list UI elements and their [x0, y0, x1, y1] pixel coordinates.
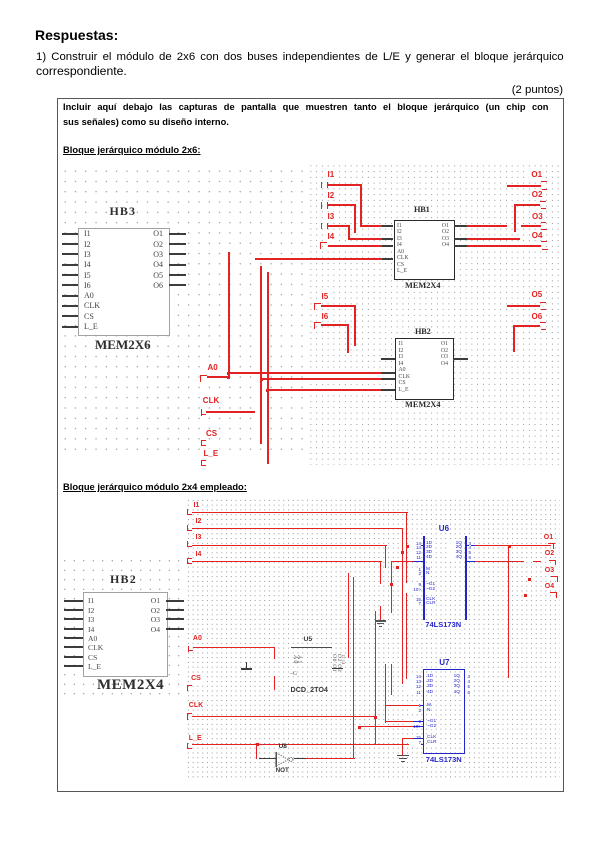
node O5 flag	[540, 302, 546, 303]
HB1 left pin names	[397, 223, 409, 275]
node O4 flag	[550, 592, 557, 593]
HB3 pin O6 stub	[169, 284, 186, 286]
HB2blk left pin names	[88, 596, 103, 671]
node I1 label	[326, 170, 337, 179]
node L_E label	[202, 449, 221, 458]
wire O3 flag lead	[521, 225, 541, 227]
junction O3 stub dot	[528, 578, 531, 581]
node O3 flag	[541, 222, 547, 223]
wire L_E to U7 CLR	[192, 744, 412, 745]
wire CLK	[192, 716, 376, 717]
node O6 flag	[540, 322, 546, 323]
HB1 pin I4 stub	[382, 245, 394, 247]
chip HB2 label MEM2X4	[405, 400, 441, 409]
node O1 flag	[548, 543, 555, 544]
node A0 flag	[188, 646, 189, 652]
wire U6 1Q to O1	[475, 545, 551, 546]
node I1 label	[192, 502, 202, 509]
node CS flag	[201, 440, 206, 441]
HB3 pin O5 stub	[169, 274, 186, 276]
HB2blk pin A0 stub	[64, 637, 83, 639]
chip U6 left bar	[423, 536, 425, 620]
node O6 label	[530, 312, 545, 321]
HB3 pin O1 stub	[169, 233, 186, 235]
wire I1	[192, 512, 407, 513]
chip HB1 label MEM2X4	[405, 281, 441, 290]
gate U8 NOT output stub	[294, 758, 306, 759]
U7 right pin numbers	[468, 674, 471, 695]
HB3 pin I3 stub	[62, 253, 79, 255]
chip U6 name	[425, 620, 461, 629]
wire to U7 M pin	[385, 705, 419, 706]
node O3 label	[530, 212, 545, 221]
points note	[512, 84, 563, 96]
junction G2 start dot	[358, 726, 361, 729]
wire vertical bus 2	[260, 266, 262, 444]
node CLK flag	[187, 713, 192, 714]
HB2blk pin O1 stub	[166, 600, 184, 602]
U7 M blue stub	[420, 705, 424, 706]
HB3 pin I4 stub	[62, 264, 79, 266]
ground G2 under U7	[397, 755, 409, 756]
node I6 flag	[314, 322, 321, 323]
HB3 pin A0 stub	[62, 295, 79, 297]
decoder U5 name	[291, 685, 328, 694]
HB2blk pin O2 stub	[166, 609, 184, 611]
wire I3	[328, 225, 350, 227]
HB2 right pin names	[435, 341, 448, 367]
wire mid vertical a	[348, 573, 349, 658]
HB2blk pin I2 stub	[64, 609, 83, 611]
node I3 flag	[321, 223, 322, 230]
node O2 flag	[540, 201, 546, 202]
HB1 pin I1 stub	[382, 225, 394, 227]
U7 M pin numbers	[411, 703, 421, 713]
section heading 1	[63, 144, 201, 155]
node CLK label	[201, 396, 221, 405]
HB3 pin CLK stub	[62, 305, 79, 307]
wire 4D feed	[391, 561, 414, 562]
HB2 left pin names	[399, 341, 411, 393]
HB1 pin O3 stub	[454, 238, 467, 240]
block HB3 body MEM2X6	[78, 228, 170, 336]
junction CLK tee	[374, 716, 377, 719]
wire I1	[328, 184, 363, 186]
U7 G1 blue stub	[413, 721, 423, 722]
node O4 flag	[541, 241, 547, 242]
chip HB1 body	[394, 220, 455, 280]
ground G1	[375, 620, 386, 622]
decoder U5 outputs rotated	[331, 654, 337, 672]
U6 inside left labels	[426, 542, 432, 561]
wire O1 flag lead	[507, 185, 541, 187]
block HB2 body	[83, 592, 168, 677]
HB1 right pin names	[436, 223, 449, 249]
HB2blk pin O4 stub	[166, 628, 184, 630]
ground tee symbol left of U5	[246, 662, 247, 670]
HB3 pin I6 stub	[62, 284, 79, 286]
decoder U5 enable label	[290, 671, 297, 677]
node CLK flag	[201, 409, 202, 416]
node CS label	[189, 675, 203, 682]
junction hidden node	[396, 566, 399, 569]
HB3 pin O3 stub	[169, 253, 186, 255]
chip HB2 title	[415, 327, 431, 336]
block HB3 label MEM2X6	[95, 337, 151, 353]
section heading 2	[63, 481, 247, 492]
node I4 label	[326, 232, 337, 241]
node L_E label	[187, 735, 204, 742]
wire mid vertical b (to NOT output)	[353, 577, 354, 759]
HB2 pin A0 stub	[381, 372, 395, 374]
HB2 pin O3 stub	[453, 358, 468, 360]
gate U8 NOT triangle	[275, 751, 299, 768]
junction O4 stub dot	[524, 594, 527, 597]
junction 2D hidden	[401, 551, 404, 554]
wire from O4 pin to flag	[467, 245, 541, 247]
HB3 pin CS stub	[62, 315, 79, 317]
wire I5	[321, 305, 356, 307]
HB2 pin CLK stub	[381, 378, 395, 380]
decoder U5 pin A0 rotated	[292, 655, 298, 664]
chip HB2 body	[395, 338, 454, 400]
decoder U5 top bar	[291, 647, 332, 648]
HB1 pin I3 stub	[382, 238, 394, 240]
U6 right pin numbers	[469, 542, 472, 561]
header title	[35, 27, 118, 43]
node O1 label	[529, 170, 544, 179]
node I2 flag	[187, 525, 188, 531]
node I3 label	[194, 534, 204, 541]
node O2 label	[543, 550, 556, 557]
grid dots right screenshot	[308, 163, 560, 465]
wire A0 to HB2	[228, 372, 381, 374]
junction 4D branch	[390, 583, 393, 586]
wire branch to NOT input	[256, 744, 257, 760]
wire CLK to HB1	[255, 258, 382, 260]
wire I4	[328, 245, 382, 247]
node I4 flag	[320, 242, 327, 243]
node CLK label	[187, 702, 205, 709]
HB1 pin CLK stub	[382, 258, 394, 260]
junction CLK branch	[260, 378, 263, 381]
gate U8 title	[279, 743, 287, 750]
node O2 label	[530, 190, 545, 199]
U6 4Q stub	[467, 561, 475, 562]
wire NOT output	[306, 758, 355, 759]
U6 1Q stub	[467, 545, 475, 546]
node O1 label	[542, 534, 555, 541]
HB2 pin L_E stub	[381, 389, 395, 391]
HB1 pin O4 stub	[454, 245, 467, 247]
U7 CLR blue stub	[413, 744, 424, 745]
wire from O3 pin	[467, 238, 520, 240]
node I3 flag	[187, 541, 188, 547]
node O1 flag	[541, 181, 547, 182]
wire from O1 pin	[467, 225, 507, 227]
node L_E flag	[201, 460, 206, 461]
U6 left pin numbers	[409, 542, 421, 561]
U7 G2 blue stub	[413, 726, 424, 727]
block HB2 label MEM2X4	[97, 677, 164, 694]
HB2blk pin I3 stub	[64, 618, 83, 620]
box instruction line 2	[63, 117, 229, 127]
HB3 pin I2 stub	[62, 243, 79, 245]
node I2 flag	[321, 202, 322, 209]
node A0 flag	[200, 375, 207, 376]
wire O1 bus vertical	[508, 545, 509, 678]
wire I4	[192, 561, 381, 562]
node I2 label	[194, 518, 204, 525]
chip U6 right bar	[465, 536, 467, 620]
HB2blk pin I1 stub	[64, 600, 83, 602]
block HB3 title	[110, 204, 137, 219]
wire U6 4Q to O2	[475, 561, 525, 562]
grid dots left screenshot	[60, 166, 305, 458]
wire I6	[321, 324, 349, 326]
HB2blk pin CLK stub	[64, 646, 83, 648]
node I5 label	[320, 292, 331, 301]
node O3 label	[543, 567, 556, 574]
wire to U7 G1 pin	[385, 721, 413, 722]
wire L_E bus to HB2	[267, 389, 381, 391]
block HB2 title	[110, 572, 137, 587]
grid dots schematic2 right	[186, 498, 560, 778]
wire 1D feed	[406, 545, 413, 546]
wire O2	[514, 204, 541, 206]
U6 4D stub	[413, 561, 423, 562]
node A0 label	[191, 635, 204, 642]
wire mid vertical d (M feed)	[385, 664, 386, 723]
HB1 pin O1 stub	[454, 225, 467, 227]
U6 1D stub	[413, 545, 423, 546]
HB3 pin I1 stub	[62, 233, 79, 235]
node A0 label	[206, 363, 220, 372]
wire vertical bus 3	[267, 272, 269, 464]
U7 CLK blue stub	[413, 738, 424, 739]
wire vertical A0 net	[228, 252, 230, 377]
node O3 flag	[551, 576, 558, 577]
wire CLK lead	[206, 411, 255, 413]
junction A0 tee	[227, 376, 230, 379]
gate U8 NOT label	[276, 767, 289, 774]
wire riser to ground1	[380, 606, 381, 620]
node I5 flag	[314, 303, 321, 304]
answer box frame	[57, 98, 564, 792]
HB3 pin O4 stub	[169, 264, 186, 266]
wire mid vertical c (CLK/L_E riser)	[375, 611, 376, 745]
node O4 label	[530, 231, 545, 240]
junction L_E branch	[266, 389, 269, 392]
node O5 label	[530, 290, 545, 299]
wire I2	[192, 528, 403, 529]
chip U7 body	[423, 669, 465, 754]
wire O5 flag lead	[507, 305, 540, 307]
junction 1D tee	[406, 545, 409, 548]
HB3 pin I5 stub	[62, 274, 79, 276]
HB3 pin O2 stub	[169, 243, 186, 245]
wire to U7 G2 pin	[359, 726, 413, 727]
decoder U5 output stub	[332, 668, 344, 669]
node O2 flag	[549, 560, 556, 561]
U7 left pin numbers	[407, 674, 421, 695]
HB2blk right pin names	[144, 596, 160, 634]
wire mid vertical e	[391, 664, 392, 695]
wire CLK bus to HB2	[260, 378, 381, 380]
wire A0 flag lead	[207, 376, 229, 378]
node CS label	[204, 429, 219, 438]
HB2blk pin O3 stub	[166, 618, 184, 620]
node I6 label	[320, 312, 331, 321]
HB2blk pin I4 stub	[64, 628, 83, 630]
HB2blk pin CS stub	[64, 656, 83, 658]
chip U7 name	[426, 755, 462, 764]
decoder U5 title	[304, 636, 313, 643]
U7 inside right labels	[446, 674, 460, 695]
wire O6	[513, 325, 540, 327]
node O4 label	[543, 583, 556, 590]
node I3 label	[326, 212, 337, 221]
junction O1 bus	[508, 545, 511, 548]
chip HB1 title	[414, 205, 430, 214]
U7 inside left labels	[427, 674, 433, 695]
HB3 pin L_E stub	[62, 326, 79, 328]
wire A0 to decoder	[193, 647, 275, 648]
U6 inside right labels	[448, 542, 462, 561]
decoder U5 pin A1 rotated	[296, 655, 302, 664]
wire U7 CLK from ground riser	[402, 738, 413, 739]
gate U8 NOT input stub	[259, 758, 275, 759]
HB2 pin I3 stub	[381, 358, 395, 360]
node I1 flag	[187, 509, 188, 515]
junction A0 branch	[227, 372, 230, 375]
node I1 flag	[321, 182, 322, 189]
node I4 flag	[187, 558, 192, 559]
wire I2	[328, 204, 357, 206]
wire O2 dash	[533, 561, 541, 562]
box instruction line 1	[63, 102, 548, 112]
node I2 label	[326, 191, 337, 200]
node CS flag	[187, 685, 192, 686]
node L_E flag	[187, 743, 188, 749]
chip U6 title	[439, 524, 449, 533]
HB3 left pin names	[84, 229, 100, 332]
junction L_E NOT branch	[256, 743, 259, 746]
wire I3	[192, 545, 387, 546]
HB3 right pin names	[147, 229, 163, 291]
grid dots schematic2 left	[60, 556, 186, 700]
question paragraph	[36, 51, 564, 63]
chip U7 title	[439, 658, 449, 667]
HB2blk pin L_E stub	[64, 665, 83, 667]
node I4 label	[194, 551, 204, 558]
